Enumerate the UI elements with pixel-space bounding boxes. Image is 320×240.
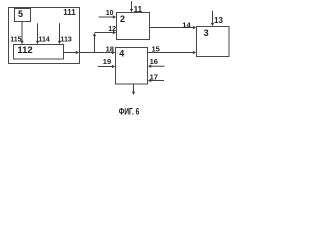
svg-text:113: 113: [61, 36, 72, 43]
svg-text:3: 3: [204, 28, 209, 38]
svg-text:12: 12: [108, 26, 116, 33]
svg-text:4: 4: [119, 49, 124, 59]
svg-text:18: 18: [106, 45, 114, 54]
svg-text:15: 15: [152, 45, 160, 54]
svg-text:115: 115: [10, 37, 21, 44]
svg-text:ФИГ. 6: ФИГ. 6: [119, 107, 139, 117]
svg-text:112: 112: [17, 45, 32, 56]
svg-text:17: 17: [150, 73, 158, 82]
svg-text:11: 11: [134, 5, 143, 14]
svg-text:14: 14: [182, 21, 191, 30]
svg-text:2: 2: [120, 14, 125, 24]
svg-text:111: 111: [63, 8, 76, 17]
svg-text:10: 10: [106, 10, 114, 17]
svg-text:114: 114: [39, 36, 50, 43]
svg-text:19: 19: [103, 57, 111, 66]
svg-text:5: 5: [18, 9, 23, 19]
svg-text:13: 13: [214, 16, 223, 25]
svg-text:16: 16: [150, 57, 158, 66]
